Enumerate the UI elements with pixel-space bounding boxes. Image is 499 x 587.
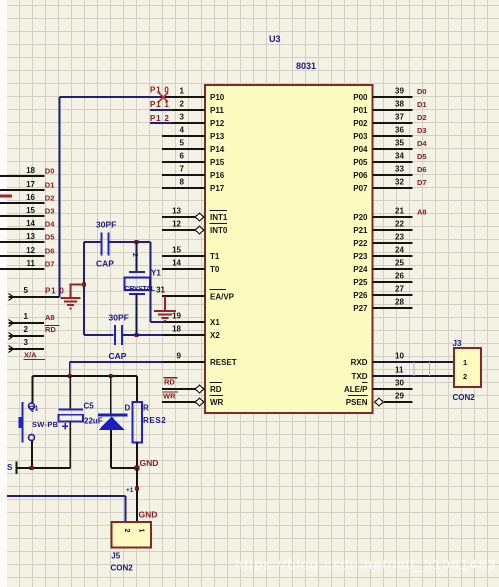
svg-text:3: 3 (180, 113, 185, 122)
U3 pin 37 P02 (353, 113, 412, 129)
wire RXD to J3 (373, 361, 455, 363)
svg-text:21: 21 (395, 207, 404, 216)
svg-text:38: 38 (395, 100, 404, 109)
svg-text:RESET: RESET (210, 358, 237, 367)
svg-text:12: 12 (172, 220, 181, 229)
diode D? (98, 376, 127, 468)
svg-text:28: 28 (395, 298, 404, 307)
svg-text:33: 33 (395, 165, 404, 174)
svg-text:39: 39 (395, 87, 404, 96)
svg-text:P11: P11 (210, 106, 224, 115)
wire right branch to X1 (151, 242, 164, 322)
pin 12 D6 of off-sheet part (0, 246, 44, 256)
svg-text:14: 14 (172, 259, 181, 268)
svg-text:R: R (143, 404, 149, 413)
port 1 net A8 (9, 312, 45, 327)
U3 pin 31 EA/VP (156, 286, 235, 302)
U3 pin WR (162, 396, 224, 408)
ground wire at EA/VP (164, 296, 166, 311)
net label RD (near pin) (164, 378, 178, 387)
svg-text:P1 2: P1 2 (150, 114, 170, 123)
svg-text:11: 11 (27, 259, 36, 268)
wire RESET to circuit (70, 362, 163, 376)
net label X/A (24, 351, 46, 360)
svg-text:D4: D4 (417, 139, 427, 148)
svg-text:GND: GND (139, 510, 158, 520)
svg-text:https://blog.csdn.net/m0_51061: https://blog.csdn.net/m0_51061483 (235, 556, 497, 572)
wire diode bottom to RES2 bottom (111, 467, 137, 469)
svg-text:15: 15 (172, 246, 181, 255)
pin 14 D4 of off-sheet part (0, 219, 44, 229)
svg-text:D6: D6 (417, 165, 427, 174)
svg-text:P22: P22 (353, 239, 368, 248)
svg-text:P24: P24 (353, 265, 368, 274)
U3 pin RD (162, 383, 222, 395)
ground symbol (crystal caps) (61, 298, 81, 309)
svg-text:8031: 8031 (296, 61, 316, 71)
wire stub pin2 (150, 109, 172, 111)
svg-text:17: 17 (26, 180, 35, 189)
U3 pin 18 X2 (162, 325, 220, 341)
wire pin1 to port5 horizontal (60, 96, 163, 98)
svg-text:30PF: 30PF (96, 220, 116, 230)
IC U3 8031 body (205, 85, 373, 413)
net label RD (45, 325, 60, 334)
junction at X2 wire (135, 333, 139, 337)
svg-text:PSEN: PSEN (346, 398, 368, 407)
svg-text:34: 34 (395, 152, 404, 161)
U3 pin 26 P25 (353, 272, 412, 288)
svg-text:P23: P23 (353, 252, 368, 261)
svg-text:+1: +1 (126, 487, 134, 494)
wire bottom rail left (S to C5) (17, 467, 71, 469)
port 5 net P1 0 (9, 286, 60, 301)
svg-text:27: 27 (395, 285, 404, 294)
wire bottom horizontal to J5 pin 2 (7, 496, 126, 522)
switch Q1 SW-PB (19, 376, 35, 468)
svg-text:P1 1: P1 1 (150, 100, 170, 109)
svg-text:P17: P17 (210, 184, 225, 193)
no-ERC cross (159, 93, 169, 103)
wire cap C? left segment (84, 241, 101, 243)
svg-text:P27: P27 (353, 304, 368, 313)
svg-text:T0: T0 (210, 265, 220, 274)
U3 pin 28 P27 (353, 298, 412, 314)
svg-text:11: 11 (395, 366, 404, 375)
svg-text:D: D (125, 404, 131, 413)
svg-text:26: 26 (395, 272, 404, 281)
wire left rail of crystal caps (83, 242, 85, 335)
svg-text:P13: P13 (210, 132, 225, 141)
svg-text:GND: GND (140, 458, 159, 468)
wire cap to junction (110, 241, 151, 243)
svg-text:RXD: RXD (351, 358, 368, 367)
svg-text:U3: U3 (269, 34, 281, 44)
svg-text:6: 6 (180, 152, 185, 161)
port 3 (9, 338, 45, 353)
svg-text:CON2: CON2 (453, 393, 476, 402)
U3 pin 2 P11 (162, 100, 224, 116)
wire crystal bottom to X2 (136, 294, 138, 335)
U3 pin 35 P04 (353, 139, 412, 155)
svg-text:15: 15 (26, 206, 35, 215)
U3 pin 19 X1 (162, 312, 220, 328)
U3 pin 27 P26 (353, 285, 412, 301)
U3 pin 38 P01 (353, 100, 412, 116)
svg-text:P20: P20 (353, 213, 368, 222)
svg-text:18: 18 (172, 325, 181, 334)
U3 pin 5 P14 (162, 139, 225, 155)
wire vertical x=59.5 (59, 97, 61, 297)
U3 pin 8 P17 (162, 178, 225, 194)
svg-text:19: 19 (172, 312, 181, 321)
U3 pin 34 P05 (353, 152, 412, 168)
junction at crystal top (135, 240, 139, 244)
svg-text:31: 31 (156, 286, 165, 295)
svg-text:TXD: TXD (352, 372, 368, 381)
U3 pin 36 P03 (353, 126, 412, 142)
net label WR (near pin) (163, 392, 179, 401)
svg-text:D1: D1 (417, 100, 427, 109)
U3 pin 23 P22 (353, 233, 412, 249)
svg-text:CON2: CON2 (111, 564, 134, 573)
svg-text:D7: D7 (417, 178, 427, 187)
resistor RES2 (133, 376, 142, 468)
svg-text:D1: D1 (45, 180, 55, 189)
svg-text:5: 5 (180, 139, 185, 148)
svg-text:P21: P21 (353, 226, 368, 235)
svg-text:P15: P15 (210, 158, 225, 167)
svg-text:13: 13 (172, 207, 181, 216)
svg-text:2: 2 (463, 372, 467, 381)
svg-text:18: 18 (26, 166, 35, 175)
svg-text:CAP: CAP (109, 351, 127, 361)
pin 13 D5 of off-sheet part (0, 232, 44, 242)
svg-text:30PF: 30PF (109, 313, 129, 323)
svg-text:EA/VP: EA/VP (210, 293, 235, 302)
wire TXD to J3 (373, 375, 455, 377)
svg-text:RES2: RES2 (143, 416, 166, 425)
port S (7, 462, 17, 475)
svg-text:22: 22 (395, 220, 404, 229)
svg-text:2: 2 (131, 253, 138, 257)
U3 pin 1 P10 (162, 87, 225, 103)
wire top rail of reset circuit (33, 375, 138, 377)
svg-text:P03: P03 (353, 132, 368, 141)
svg-text:25: 25 (395, 259, 404, 268)
connector J3 CON2 body (454, 348, 481, 387)
junction switch bottom (30, 466, 34, 470)
svg-text:1: 1 (138, 529, 145, 533)
U3 pin 33 P06 (353, 165, 412, 181)
stub red label left edge (0, 195, 12, 198)
svg-text:A8: A8 (417, 208, 427, 217)
svg-text:32: 32 (395, 178, 404, 187)
U3 pin 21 P20 (353, 207, 412, 223)
svg-text:37: 37 (395, 113, 404, 122)
U3 pin 25 P24 (353, 259, 412, 275)
wire RES2 bottom to connector J5 (136, 468, 138, 522)
svg-text:J5: J5 (111, 552, 120, 561)
svg-text:P00: P00 (353, 93, 368, 102)
U3 pin 4 P13 (162, 126, 225, 142)
svg-text:3: 3 (24, 338, 29, 347)
svg-text:X/A: X/A (24, 351, 37, 360)
wire junction down to crystal (136, 242, 138, 272)
svg-text:D3: D3 (417, 126, 427, 135)
ground wire red (71, 285, 85, 298)
U3 pin 10 RXD (351, 352, 413, 368)
U3 pin 11 TXD (352, 366, 413, 382)
U3 pin 3 P12 (162, 113, 225, 129)
pin 11 D7 of off-sheet part (0, 259, 44, 269)
svg-text:9: 9 (177, 352, 182, 361)
svg-text:D5: D5 (45, 232, 55, 241)
svg-text:36: 36 (395, 126, 404, 135)
svg-text:D0: D0 (417, 87, 427, 96)
U3 pin 24 P23 (353, 246, 412, 262)
svg-text:D5: D5 (417, 152, 427, 161)
U3 pin 14 T0 (162, 259, 220, 275)
svg-text:10: 10 (395, 352, 404, 361)
svg-text:J3: J3 (453, 339, 462, 348)
svg-text:P10: P10 (210, 93, 225, 102)
svg-text:INT0: INT0 (210, 226, 228, 235)
pin 18 D0 of off-sheet part (0, 166, 44, 176)
svg-text:Y1: Y1 (151, 269, 161, 278)
U3 pin 22 P21 (353, 220, 412, 236)
pin 15 D3 of off-sheet part (0, 206, 44, 216)
U3 pin 15 T1 (162, 246, 220, 262)
svg-text:2: 2 (24, 325, 29, 334)
svg-text:2: 2 (180, 100, 185, 109)
svg-text:RD: RD (164, 378, 175, 387)
U3 pin 29 PSEN (346, 392, 413, 408)
svg-text:1: 1 (24, 312, 29, 321)
junction rail/C5 (68, 374, 72, 378)
junction GND node (135, 466, 140, 471)
svg-text:P26: P26 (353, 291, 368, 300)
connector J5 CON2 body (111, 522, 151, 548)
svg-text:P06: P06 (353, 171, 368, 180)
svg-text:P05: P05 (353, 158, 368, 167)
svg-text:D2: D2 (45, 193, 55, 202)
crystal Y1 (124, 272, 150, 294)
svg-text:12: 12 (26, 246, 35, 255)
port 2 net RD (9, 325, 45, 340)
svg-text:P25: P25 (353, 278, 368, 287)
svg-text:P01: P01 (353, 106, 368, 115)
svg-text:T1: T1 (210, 252, 220, 261)
svg-text:D0: D0 (45, 166, 55, 175)
svg-text:X1: X1 (210, 318, 220, 327)
U3 pin 30 ALE/P (344, 379, 413, 395)
junction rail/diode (109, 374, 113, 378)
svg-text:Q1: Q1 (29, 406, 38, 413)
wire cap2 left segment (84, 334, 114, 336)
svg-text:SW-PB: SW-PB (32, 420, 59, 429)
U3 pin 39 P00 (353, 87, 412, 103)
wire stub pin3 (150, 122, 172, 124)
svg-text:P07: P07 (353, 184, 368, 193)
U3 pin 9 RESET (162, 352, 237, 368)
svg-text:13: 13 (26, 232, 35, 241)
svg-text:7: 7 (180, 165, 185, 174)
capacitor C5 22uF electrolytic (59, 376, 84, 468)
svg-text:P1 0: P1 0 (45, 287, 65, 296)
svg-text:D3: D3 (45, 206, 55, 215)
svg-text:4: 4 (180, 126, 185, 135)
junction ground tap on rail (82, 283, 86, 287)
svg-text:35: 35 (395, 139, 404, 148)
svg-text:P14: P14 (210, 145, 225, 154)
svg-text:WR: WR (210, 398, 224, 407)
svg-text:A8: A8 (45, 313, 55, 322)
svg-text:X2: X2 (210, 331, 220, 340)
pin 17 D1 of off-sheet part (0, 180, 44, 190)
svg-text:14: 14 (26, 219, 35, 228)
svg-text:RD: RD (45, 325, 56, 334)
svg-text:D2: D2 (417, 113, 427, 122)
U3 pin 6 P15 (162, 152, 225, 168)
svg-text:P16: P16 (210, 171, 225, 180)
svg-text:24: 24 (395, 246, 404, 255)
ground symbol (EA/VP) (154, 311, 176, 321)
svg-text:S: S (7, 463, 13, 472)
U3 pin 32 P07 (353, 178, 412, 194)
svg-text:RD: RD (210, 385, 222, 394)
svg-text:C5: C5 (84, 402, 95, 411)
U3 pin 12 INT0 (162, 220, 228, 236)
svg-text:D7: D7 (45, 259, 55, 268)
svg-text:5: 5 (24, 286, 29, 295)
svg-text:30: 30 (395, 379, 404, 388)
svg-text:23: 23 (395, 233, 404, 242)
svg-text:8: 8 (180, 178, 185, 187)
net marker +1 with red square (126, 486, 139, 494)
svg-text:D4: D4 (45, 219, 55, 228)
svg-text:16: 16 (26, 193, 35, 202)
svg-text:1: 1 (463, 358, 467, 367)
wire cap2 to X2 pin (123, 334, 163, 336)
svg-text:CAP: CAP (96, 259, 114, 269)
selection box artifact (414, 362, 430, 376)
svg-text:22uF: 22uF (84, 417, 103, 426)
svg-text:29: 29 (395, 392, 404, 401)
U3 pin 7 P16 (162, 165, 225, 181)
pin 16 D2 of off-sheet part (0, 193, 44, 203)
svg-text:WR: WR (163, 392, 176, 401)
svg-text:P04: P04 (353, 145, 368, 154)
svg-text:P12: P12 (210, 119, 225, 128)
capacitor 30PF top (CAP) plates (102, 233, 109, 256)
svg-text:INT1: INT1 (210, 213, 228, 222)
svg-text:P02: P02 (353, 119, 368, 128)
svg-text:2: 2 (123, 529, 130, 533)
U3 pin 13 INT1 (162, 207, 228, 223)
capacitor 30PF bottom (CAP) plates (115, 325, 122, 345)
svg-text:ALE/P: ALE/P (344, 385, 368, 394)
svg-text:D6: D6 (45, 246, 55, 255)
svg-text:1: 1 (180, 87, 185, 96)
